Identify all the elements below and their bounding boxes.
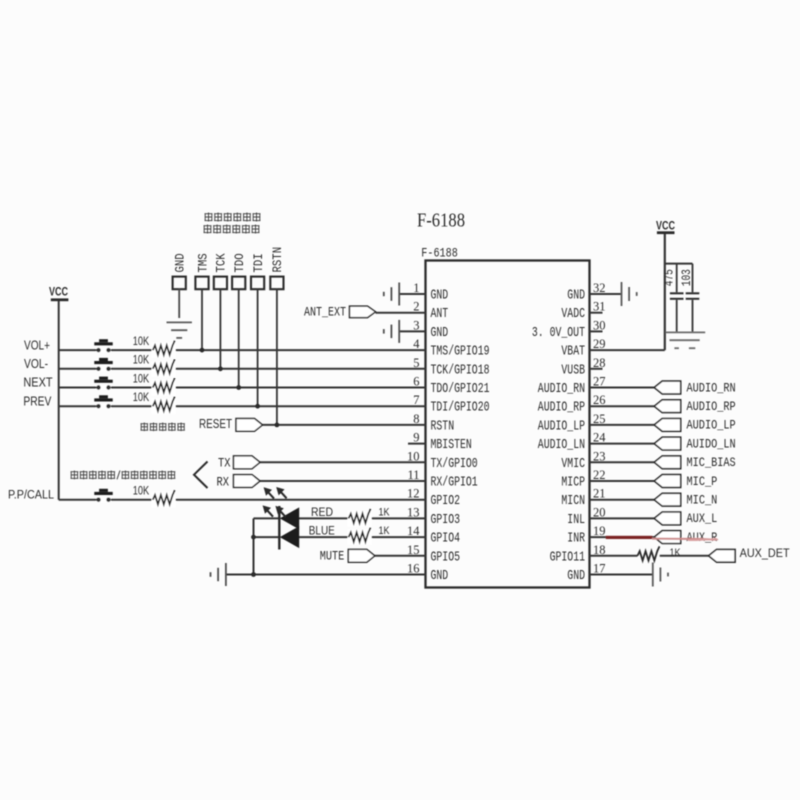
svg-text:475: 475 (663, 269, 677, 286)
svg-text:VCC: VCC (49, 286, 68, 298)
svg-text:MIC_BIAS: MIC_BIAS (687, 455, 736, 470)
svg-text:1K: 1K (670, 547, 682, 559)
svg-text:10K: 10K (133, 336, 150, 348)
svg-text:MICP: MICP (561, 475, 585, 491)
svg-text:RESET: RESET (199, 417, 232, 431)
svg-text:22: 22 (593, 468, 606, 482)
svg-text:2: 2 (413, 300, 419, 314)
svg-text:PREV: PREV (23, 393, 51, 408)
svg-text:RSTN: RSTN (270, 247, 285, 273)
svg-text:ANT_EXT: ANT_EXT (304, 304, 346, 319)
svg-text:7: 7 (413, 393, 419, 407)
svg-text:29: 29 (593, 337, 606, 351)
svg-text:TX/GPIO0: TX/GPIO0 (431, 456, 478, 472)
svg-text:10K: 10K (133, 355, 150, 367)
svg-text:TCK/GPIO18: TCK/GPIO18 (431, 362, 490, 378)
svg-text:10K: 10K (133, 486, 150, 498)
svg-text:4: 4 (413, 337, 420, 351)
svg-text:TCK: TCK (214, 253, 229, 272)
svg-text:RED: RED (311, 507, 333, 519)
svg-text:12: 12 (407, 487, 420, 501)
svg-text:21: 21 (593, 487, 606, 501)
svg-text:1: 1 (413, 281, 419, 295)
svg-text:11: 11 (407, 468, 419, 482)
svg-text:RX: RX (217, 474, 230, 489)
svg-text:TDO: TDO (232, 253, 247, 272)
svg-text:13: 13 (407, 505, 420, 519)
svg-text:RSTN: RSTN (431, 418, 455, 434)
svg-text:VOL-: VOL- (24, 356, 48, 371)
svg-text:103: 103 (680, 269, 694, 286)
svg-text:GND: GND (431, 325, 449, 341)
svg-text:P.P/CALL: P.P/CALL (8, 490, 55, 502)
svg-text:17: 17 (593, 562, 606, 576)
svg-text:VUSB: VUSB (561, 362, 585, 378)
svg-text:14: 14 (407, 524, 420, 538)
svg-text:18: 18 (593, 543, 606, 557)
svg-text:AUDIO_RP: AUDIO_RP (538, 400, 585, 416)
svg-text:25: 25 (593, 412, 606, 426)
svg-text:AUDIO_LN: AUDIO_LN (538, 437, 585, 453)
svg-text:GPIO4: GPIO4 (431, 531, 461, 547)
svg-text:GND: GND (173, 253, 188, 272)
svg-text:32: 32 (593, 281, 606, 295)
svg-text:3. 0V_OUT: 3. 0V_OUT (532, 325, 585, 341)
svg-text:AUX_R: AUX_R (687, 530, 718, 545)
svg-text:GND: GND (567, 568, 585, 584)
svg-text:31: 31 (593, 300, 606, 314)
svg-text:GPIO3: GPIO3 (431, 512, 461, 528)
svg-text:10K: 10K (133, 373, 150, 385)
svg-text:5: 5 (413, 356, 419, 370)
svg-text:VOL+: VOL+ (24, 337, 50, 352)
svg-text:F-6188: F-6188 (421, 245, 458, 260)
svg-text:GPIO5: GPIO5 (431, 549, 461, 565)
svg-text:TX: TX (218, 456, 231, 471)
svg-text:MUTE: MUTE (320, 549, 345, 564)
svg-text:1K: 1K (379, 506, 391, 518)
svg-text:INL: INL (567, 512, 585, 528)
svg-text:MBISTEN: MBISTEN (431, 437, 472, 453)
svg-text:28: 28 (593, 356, 606, 370)
svg-text:NEXT: NEXT (23, 375, 52, 390)
svg-text:24: 24 (593, 431, 606, 445)
svg-text:INR: INR (567, 531, 585, 547)
svg-text:GPIO2: GPIO2 (431, 493, 461, 509)
svg-text:20: 20 (593, 505, 606, 519)
svg-text:3: 3 (413, 318, 419, 332)
svg-text:10K: 10K (133, 392, 150, 404)
svg-text:GPIO11: GPIO11 (550, 549, 585, 565)
svg-text:MICN: MICN (561, 493, 585, 509)
svg-text:GND: GND (431, 568, 449, 584)
svg-text:VADC: VADC (561, 306, 585, 322)
svg-text:15: 15 (407, 543, 420, 557)
svg-text:AUX_L: AUX_L (687, 511, 718, 526)
svg-text:BLUE: BLUE (309, 526, 335, 538)
svg-text:TDO/GPIO21: TDO/GPIO21 (431, 381, 490, 397)
svg-text:19: 19 (593, 524, 606, 538)
svg-text:TMS/GPIO19: TMS/GPIO19 (431, 344, 490, 360)
svg-text:VCC: VCC (656, 220, 675, 232)
svg-text:AUDIO_RN: AUDIO_RN (687, 380, 736, 395)
svg-text:TDI/GPIO20: TDI/GPIO20 (431, 400, 490, 416)
svg-text:RX/GPIO1: RX/GPIO1 (431, 475, 478, 491)
svg-text:26: 26 (593, 393, 606, 407)
svg-text:6: 6 (413, 375, 419, 389)
svg-text:AUX_DET: AUX_DET (740, 548, 790, 560)
svg-text:TDI: TDI (251, 253, 266, 272)
svg-text:F-6188: F-6188 (417, 211, 465, 232)
svg-text:ANT: ANT (431, 306, 449, 322)
svg-text:8: 8 (413, 412, 419, 426)
svg-text:16: 16 (407, 562, 420, 576)
svg-text:AUDIO_RN: AUDIO_RN (538, 381, 585, 397)
svg-text:AUDIO_LP: AUDIO_LP (687, 418, 736, 433)
svg-text:23: 23 (593, 449, 606, 463)
svg-text:AUDIO_LP: AUDIO_LP (538, 418, 585, 434)
svg-text:9: 9 (413, 431, 419, 445)
svg-text:VBAT: VBAT (561, 344, 585, 360)
svg-text:AUDIO_RP: AUDIO_RP (687, 399, 736, 414)
svg-text:1K: 1K (379, 525, 391, 537)
svg-text:AUIDO_LN: AUIDO_LN (687, 436, 736, 451)
svg-text:GND: GND (431, 288, 449, 304)
svg-text:30: 30 (593, 318, 606, 332)
svg-text:VMIC: VMIC (561, 456, 585, 472)
svg-text:10: 10 (407, 449, 420, 463)
svg-text:TMS: TMS (195, 253, 210, 272)
svg-text:MIC_N: MIC_N (687, 493, 718, 508)
svg-text:MIC_P: MIC_P (687, 474, 718, 489)
svg-text:GND: GND (567, 288, 585, 304)
svg-text:27: 27 (593, 375, 606, 389)
